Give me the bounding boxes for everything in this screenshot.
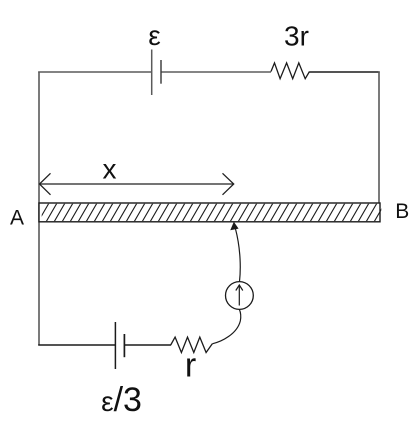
battery E1 long plate: [151, 50, 153, 96]
label ε: [148, 20, 160, 51]
battery E2 short plate: [123, 334, 125, 357]
wire resistor 3r to top-right corner: [310, 71, 380, 73]
wire top-left segment: [38, 71, 151, 73]
resistor 3r: [271, 63, 310, 79]
label 3r: [284, 21, 309, 52]
wire curve galvanometer to jockey contact: [231, 223, 240, 282]
arrow x double-headed: [40, 173, 234, 195]
resistor r: [171, 337, 213, 352]
svg-text:A: A: [10, 206, 24, 229]
galvanometer needle arrow: [236, 285, 243, 306]
svg-text:ε/3: ε/3: [101, 381, 142, 419]
battery E2 long plate: [114, 322, 116, 369]
label x: [103, 153, 117, 184]
wire battery to resistor 3r: [161, 71, 271, 73]
label r: [185, 347, 196, 385]
node A: [10, 206, 24, 229]
svg-text:B: B: [395, 200, 409, 223]
svg-text:r: r: [185, 347, 196, 385]
svg-text:ε: ε: [148, 20, 160, 51]
wire curve resistor r to galvanometer: [212, 309, 240, 344]
svg-text:x: x: [103, 153, 117, 184]
potentiometer wire bar AB: [30, 203, 393, 222]
wire right vertical B-side: [378, 72, 380, 204]
svg-text:3r: 3r: [284, 21, 309, 52]
label ε/3: [101, 381, 142, 419]
battery E1 short plate: [160, 60, 162, 84]
wire bottom-left horizontal: [38, 344, 115, 346]
wire battery E2 to resistor r: [124, 344, 171, 346]
wire left vertical A-side: [38, 72, 40, 346]
galvanometer G circle: [226, 282, 254, 310]
node B: [395, 200, 409, 223]
